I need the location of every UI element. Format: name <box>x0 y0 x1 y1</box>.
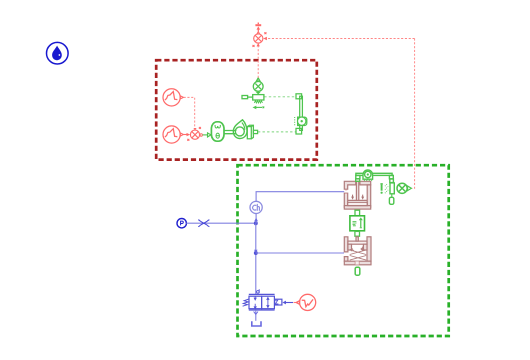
multiplier junction M2 (top red X circle) <box>253 32 267 47</box>
fluid properties icon W1 (blue drop) <box>47 42 69 64</box>
hydraulic wire Ch1 -> piston PV1 left port <box>256 192 344 202</box>
multiplier junction M1 (red X circle) <box>187 127 202 141</box>
hydraulic wire P1 -> node N1 <box>186 222 256 224</box>
signal source SRC1 (piecewise linear) <box>163 89 183 106</box>
piston PV1 port ticks <box>345 190 347 193</box>
lever L1 (vertical rocker) <box>295 94 307 134</box>
rod connector square (mass to PV2) <box>355 231 360 236</box>
force sensor X1 (green X circle on mass) <box>253 78 263 94</box>
orifice R1 <box>198 220 209 227</box>
node N2 (junction dot) <box>254 250 258 255</box>
displacement sensor S1 (green, on lever right) <box>380 179 394 204</box>
pressure source P1 <box>177 219 186 228</box>
signal wire X2 -> M2 (right input, long dashed) <box>263 37 414 189</box>
PV2 bottom stem gap <box>355 261 359 264</box>
supercomponent boundary (green dashed box) <box>238 165 449 336</box>
mech wire mass -> lever L1 top <box>264 96 296 98</box>
signal wire SRC2 -> multiplier M1 <box>184 133 191 136</box>
hydraulic wire N1 -> N2 -> valve V1 <box>255 223 257 294</box>
node N1 (junction dot) <box>254 221 258 225</box>
tank T1 <box>252 321 261 326</box>
signal wire X1 -> multiplier M2 <box>257 43 260 78</box>
signal sink / plug above M2 <box>255 23 261 32</box>
rotary speed/angle source U1 (omega-theta stadium) <box>211 122 224 141</box>
mass block MB1 (green) <box>350 216 365 231</box>
velocity arrow under mass <box>253 106 265 110</box>
lever L2 (horizontal rocker, green) <box>356 170 394 181</box>
signal source SRC3 (red, drives valve) <box>296 294 316 310</box>
hydraulic wire N2 -> chamber PV2 left port <box>256 252 344 254</box>
piston PV1 (double chamber, dark red) <box>344 181 370 209</box>
directional valve V1 (blue 2/2) <box>243 289 282 310</box>
bottom stem of PV2 (green) <box>355 267 360 275</box>
signal wire M1 -> speed source (green) <box>203 133 211 137</box>
multiplier/gain X2 (green X circle) <box>397 183 411 193</box>
cam CAM1 (rotating cam) <box>233 120 247 139</box>
supercomponent boundary (red dashed box) <box>156 60 317 159</box>
signal wire SRC1 -> multiplier M1 <box>184 97 195 129</box>
cam follower F1 <box>247 125 257 139</box>
spring chamber PV2 (dark red) <box>344 237 371 265</box>
wire Ch1 bottom -> node N1 with up arrow <box>254 214 258 223</box>
piston PV1 chamber arrows <box>351 195 364 200</box>
rod connector square (PV1 to mass) <box>355 210 360 215</box>
wire V1 -> tank <box>254 310 258 321</box>
mech wire follower -> lever L1 bottom <box>258 131 296 133</box>
mass with friction MA1 <box>242 95 264 103</box>
chamber sensor Ch1 <box>250 201 262 213</box>
rod connector square (lever to PV1) <box>356 179 360 181</box>
springs inside PV2 <box>350 247 367 261</box>
pilot signal wire into V1 <box>283 301 297 305</box>
signal source SRC2 (piecewise linear) <box>163 126 183 143</box>
shaft wire U1 -> cam <box>224 131 236 134</box>
